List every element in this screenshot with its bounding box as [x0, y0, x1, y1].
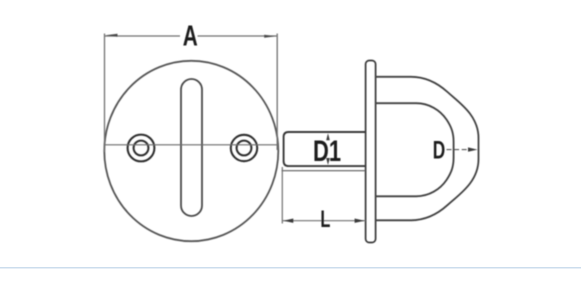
dimension A: dimension line [105, 35, 181, 37]
dimension A: extension line left [104, 34, 106, 153]
svg-text:L: L [320, 206, 330, 233]
left hole inner [134, 141, 149, 156]
right hole inner [237, 141, 252, 156]
L dimension left extension line [281, 167, 283, 224]
L right arrowhead [355, 219, 365, 223]
D1 dimension small up arrow [326, 133, 330, 140]
D dimension right arrowhead [468, 147, 478, 151]
thread line under stud [282, 170, 366, 172]
eye loop outer profile [376, 77, 479, 221]
dimension A: extension line right [276, 34, 278, 151]
D1 dimension small down arrow [326, 158, 330, 165]
eye loop inner profile [376, 103, 454, 196]
D dimension arrow line [447, 149, 474, 151]
right hole outer [231, 135, 257, 161]
svg-text:D: D [433, 137, 446, 165]
decorative bottom rule [0, 267, 581, 269]
svg-text:D1: D1 [313, 135, 341, 168]
stud (threaded shank, D1 cylinder) [284, 132, 366, 166]
L dimension line [282, 220, 365, 222]
center slot [181, 79, 202, 216]
side-view plate [366, 61, 376, 243]
svg-text:A: A [183, 20, 198, 52]
L left arrowhead [283, 219, 293, 223]
left hole outer [128, 135, 155, 162]
dimension A: left arrowhead [106, 34, 118, 37]
dimension A: right arrowhead [264, 35, 276, 38]
round plate (front view circle) [104, 61, 278, 241]
horizontal centerline through holes [105, 144, 278, 146]
